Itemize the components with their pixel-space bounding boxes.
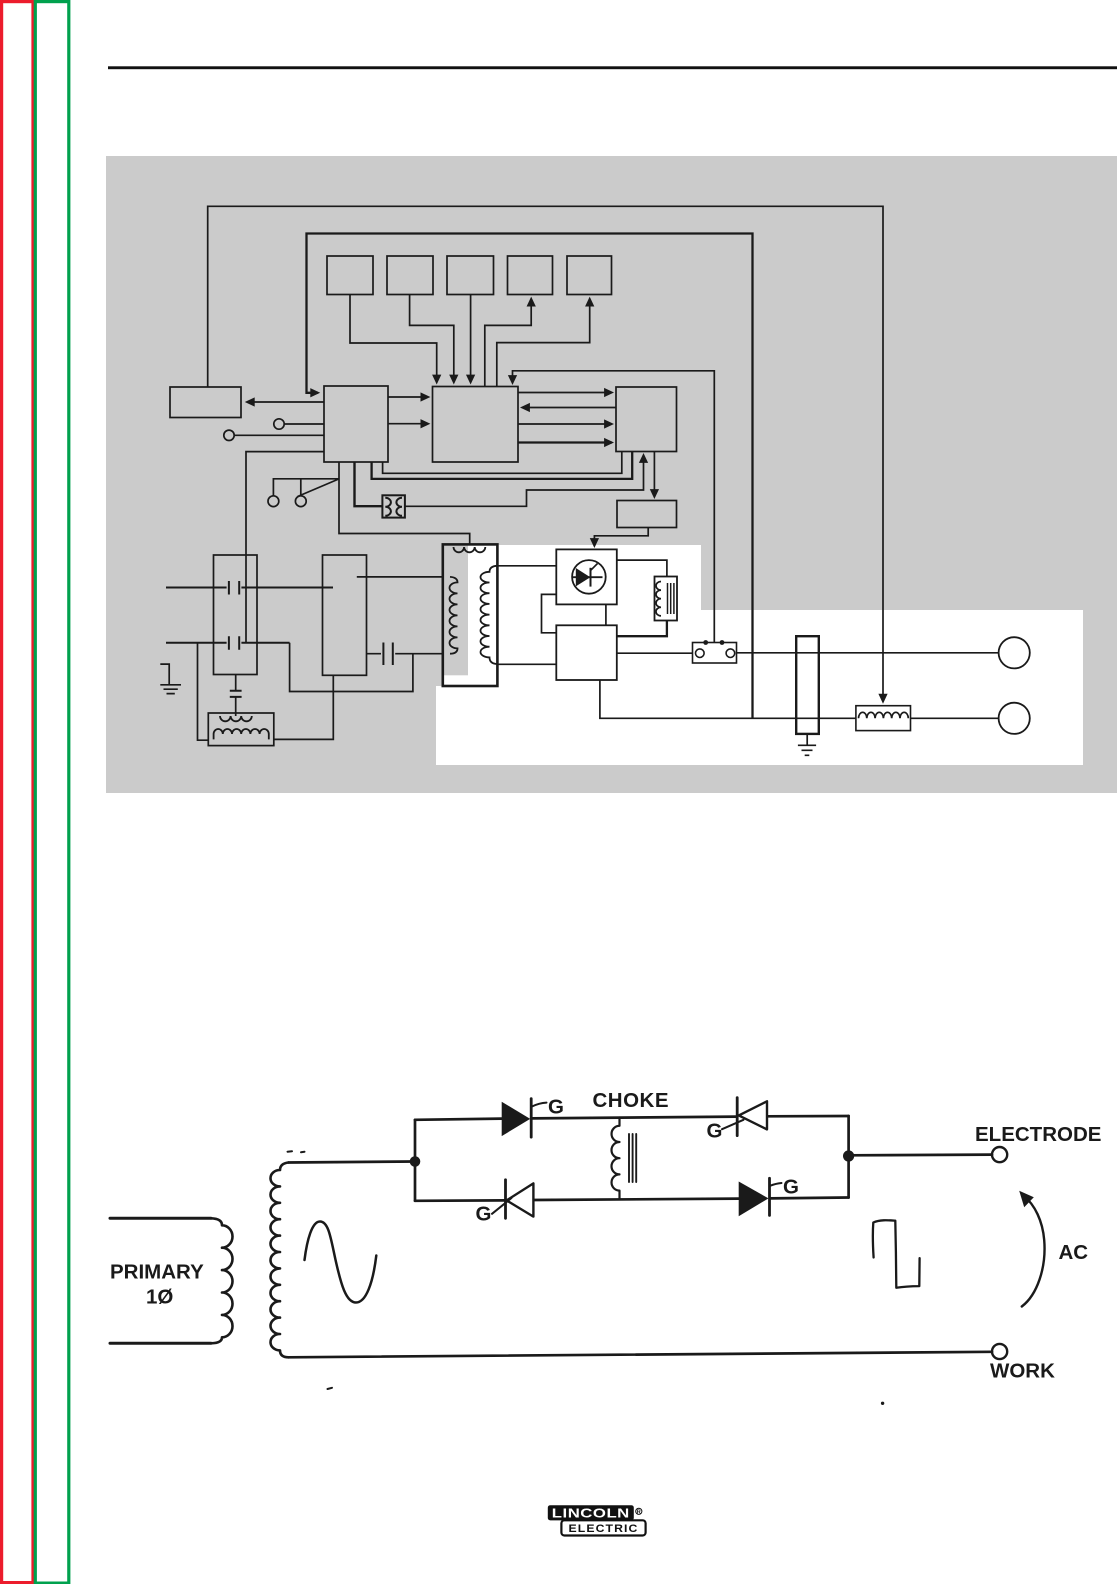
wire E to SCR block [594,528,648,546]
wire SCR to gate block vertical [605,604,607,625]
capacitor CA2 [166,636,290,650]
wire right branch riser [847,1116,850,1198]
svg-text:WORK: WORK [990,1360,1055,1383]
box C main controller [433,387,519,463]
svg-text:AC: AC [1059,1241,1089,1264]
box A control module [170,387,241,418]
transformer secondary winding [271,1163,289,1358]
thermostat [693,640,737,663]
wire B to D bus upper [383,452,622,474]
wire control-loop rectangle to work node [307,234,753,719]
wire B to C upper [388,396,428,398]
wire M3 to C [470,295,472,383]
stray mark c [881,1402,884,1405]
svg-text:G: G [783,1176,799,1199]
wire top branch [415,1116,849,1120]
svg-text:PRIMARY: PRIMARY [110,1261,204,1284]
wire snubber to gate block [617,621,667,637]
transformer T1 [443,544,498,686]
wire T1 secondary to SCR [497,565,556,567]
work terminal [992,1344,1007,1359]
wire input return path [290,643,413,692]
wire B to A arrow [247,401,324,403]
SCR 1 [502,1099,547,1137]
stray mark b [328,1388,333,1389]
wire T1a to B [284,423,324,425]
SCR firing block [556,549,617,604]
node left junction [410,1156,421,1167]
AC reversal arrow [1019,1191,1044,1307]
svg-text:LINCOLN: LINCOLN [552,1505,630,1520]
capacitor CB below F1 [230,674,242,713]
box F1 line filter [214,555,258,675]
choke winding [612,1118,637,1199]
breaker ground [798,734,816,755]
svg-text:ELECTRODE: ELECTRODE [975,1123,1101,1146]
wire bottom branch [415,1198,849,1201]
box D driver [616,387,677,452]
wire secondary top lead [289,1162,416,1163]
node right junction [843,1150,854,1161]
capacitor CA1 [166,581,333,595]
wire SCR to snubber [617,560,667,576]
wire gate block to thermostat [617,652,693,654]
wire to electrode terminal [849,1153,992,1156]
wire secondary bottom lead to work [289,1352,993,1358]
electrode output terminal [999,637,1030,668]
Lincoln Electric logo banner [548,1505,642,1520]
wire left junction riser [414,1120,417,1201]
wire top bus to choke arrow [208,206,883,701]
switch terminal S2 [295,496,306,507]
svg-text:G: G [707,1120,723,1143]
wire B to optocoupler [355,462,383,506]
box M4 top module 4 [508,256,553,295]
wire suppressor left leg [198,643,209,740]
svg-text:1Ø: 1Ø [146,1286,173,1309]
wire D to E [653,452,655,497]
box M3 top module 3 [447,256,494,295]
wire T1b to B [234,434,324,436]
wire M1 to C [350,295,437,383]
ground chassis [160,664,181,694]
svg-text:R: R [637,1509,641,1515]
wire C to thermostat [513,371,715,643]
spark gap suppressor box [208,713,273,746]
svg-text:G: G [548,1096,564,1119]
box F2 line filter 2 [323,555,367,675]
box B input logic [324,386,388,462]
wire B to transformer primary feed [339,462,470,544]
box M2 top module 2 [387,256,433,295]
box M5 top module 5 [567,256,612,295]
stray mark a [288,1151,305,1152]
wire C to D line3 [518,441,612,443]
wire gate block to work line [600,680,856,718]
wire T1 secondary to gate block [497,663,556,665]
capacitor CC primary bottom [367,643,451,666]
terminal circle T1a [274,419,284,429]
wire B to D bus lower [372,452,633,479]
wire M2 to C [410,295,454,383]
label PRIMARY 1-phase [110,1261,204,1309]
sine wave symbol [305,1222,377,1303]
wire C to D line2 [518,423,612,425]
wire C to M4 [485,299,531,387]
SCR 4 [739,1178,782,1216]
SCR 3 [722,1098,767,1136]
work line to terminal [910,717,998,719]
switch wires and blade [273,479,339,497]
box M1 top module 1 [327,256,373,295]
svg-text:ELECTRIC: ELECTRIC [569,1523,639,1535]
wire D to C feedback [522,407,616,409]
square wave symbol [873,1220,920,1287]
gate drive block [556,625,617,680]
wire F2 to primary top [357,576,450,578]
transformer primary winding [110,1218,233,1343]
terminal circle T1b [224,430,234,440]
wire C to D line1 [518,392,612,394]
output choke box [856,706,911,731]
work output terminal [999,703,1030,734]
wire optocoupler to D [405,455,644,506]
svg-text:G: G [476,1203,492,1226]
SCR 2 [492,1180,533,1219]
optocoupler box [382,495,405,517]
circuit breaker [796,636,819,734]
wire suppressor to F2 [274,675,334,739]
wire C to M5 [497,299,590,387]
electrode terminal [992,1147,1007,1162]
wire thermostat to electrode terminal [737,652,999,654]
wire left input to B [246,452,324,643]
svg-text:CHOKE: CHOKE [593,1089,670,1112]
snubber inductor box [655,577,678,621]
switch terminal S1 [268,496,279,507]
box E aux module [617,501,677,528]
wire SCR gate loop [542,594,557,632]
wire B to C lower [388,423,428,425]
Lincoln Electric logo electric box [561,1520,645,1535]
